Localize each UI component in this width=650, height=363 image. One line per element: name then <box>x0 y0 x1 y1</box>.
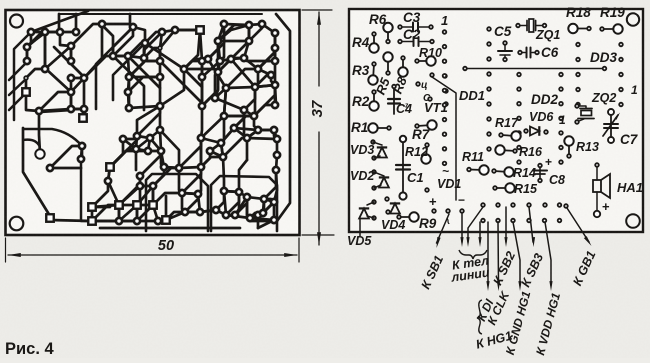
pad <box>273 167 279 173</box>
wire <box>128 56 160 88</box>
wire <box>96 27 133 109</box>
pad <box>147 135 153 141</box>
wire <box>129 106 160 108</box>
wire <box>218 25 249 41</box>
wire <box>218 24 224 72</box>
wire <box>184 61 202 69</box>
wire <box>81 146 84 159</box>
wire <box>92 220 119 223</box>
wire <box>128 56 144 58</box>
wire <box>200 138 203 167</box>
pad <box>22 88 30 96</box>
wire <box>208 24 224 59</box>
pad <box>212 95 218 101</box>
DD1 pin pad <box>443 30 447 34</box>
pad <box>125 89 131 95</box>
wire <box>258 33 275 69</box>
wire <box>26 47 29 61</box>
wire <box>129 58 144 77</box>
wire <box>137 205 153 221</box>
wire <box>136 205 139 221</box>
wire <box>244 110 247 138</box>
wire <box>70 92 73 109</box>
wire <box>218 40 249 43</box>
wire <box>224 115 254 118</box>
wire <box>160 130 161 151</box>
long signal wire <box>466 68 603 70</box>
wire <box>184 30 200 69</box>
wire <box>139 176 142 205</box>
wire <box>220 59 231 61</box>
pad <box>252 84 258 90</box>
pad <box>176 165 182 171</box>
wire <box>145 43 184 69</box>
pad <box>142 40 148 46</box>
resistor R13 <box>568 141 570 156</box>
wire <box>31 31 45 34</box>
wire <box>113 43 145 100</box>
wire <box>108 167 110 181</box>
wire <box>248 25 251 41</box>
wire <box>164 167 179 168</box>
wire <box>44 32 47 69</box>
wire <box>137 220 158 223</box>
pad <box>78 156 84 162</box>
wire <box>221 128 234 143</box>
wire K VDD HG1 <box>545 222 551 285</box>
pad <box>149 201 157 209</box>
wire K CLK <box>497 222 500 285</box>
pad <box>68 75 74 81</box>
wire <box>50 220 92 221</box>
wire <box>9 93 26 110</box>
wire K DI <box>487 222 489 285</box>
wire <box>201 77 204 106</box>
pad <box>244 135 250 141</box>
wire <box>119 220 137 223</box>
wire <box>254 116 258 130</box>
wire <box>185 211 200 214</box>
wire K SB3 <box>529 207 533 242</box>
wire <box>100 227 240 230</box>
wire <box>198 194 200 212</box>
wire <box>276 139 279 155</box>
wire <box>9 62 27 80</box>
wire <box>153 193 182 205</box>
wire <box>70 46 73 61</box>
DD2 pin pad <box>517 87 521 91</box>
wire <box>218 59 231 72</box>
wire <box>123 136 137 139</box>
pad <box>110 53 116 59</box>
wire <box>200 210 216 212</box>
wire from VT1 to bottom connector <box>432 77 456 200</box>
IC DD1 pin row <box>443 30 447 165</box>
pad <box>228 56 234 62</box>
wire <box>234 128 247 160</box>
wire <box>201 157 223 167</box>
resistor R15 <box>495 187 510 189</box>
wire <box>160 130 179 168</box>
DD3 pin pad <box>619 73 623 77</box>
wire <box>221 116 224 143</box>
pad <box>79 114 87 122</box>
resistor R6 <box>387 28 389 42</box>
pad <box>81 75 87 81</box>
wire <box>201 116 224 138</box>
wire <box>137 106 160 136</box>
wire <box>91 207 94 221</box>
wire <box>129 14 132 25</box>
wire <box>258 129 274 132</box>
wire <box>249 24 262 41</box>
wire <box>249 24 262 25</box>
wire <box>215 98 244 110</box>
wire <box>254 87 257 116</box>
wire <box>128 77 129 92</box>
horizontal dimension line 50 <box>8 254 297 256</box>
wire <box>224 191 247 197</box>
wire <box>45 31 60 34</box>
DD2 pin pad <box>517 160 521 164</box>
wire <box>202 59 208 61</box>
DD3 pin pad <box>576 103 580 107</box>
wire <box>160 69 184 106</box>
wire <box>224 88 226 116</box>
wire <box>128 92 129 108</box>
wire <box>231 41 249 59</box>
diode VD5 <box>372 200 376 204</box>
wire <box>136 149 148 151</box>
DD3 pin pad <box>619 88 623 92</box>
wire <box>148 150 161 153</box>
wire <box>175 29 200 32</box>
resistor R9 <box>399 216 414 218</box>
mounting hole top-left <box>10 15 23 28</box>
wire <box>234 110 244 128</box>
DD2 pin pad <box>559 87 563 91</box>
wire <box>258 220 274 228</box>
wire <box>137 136 150 138</box>
wire <box>119 176 140 205</box>
wire <box>250 218 274 220</box>
brace HG1 <box>477 300 482 334</box>
wire <box>179 168 182 193</box>
wire <box>26 47 29 61</box>
wire <box>110 149 136 167</box>
wire <box>26 92 39 111</box>
resistor R18 <box>573 28 589 30</box>
pad <box>157 58 163 64</box>
wire <box>255 69 258 87</box>
wire <box>23 140 40 147</box>
wire <box>119 205 137 221</box>
wire <box>162 30 175 32</box>
mounting hole top-right <box>627 13 639 25</box>
pad <box>134 133 140 139</box>
wire <box>254 85 275 116</box>
wire <box>250 215 258 218</box>
connector pad <box>496 219 500 223</box>
vertical dimension line 37 <box>318 12 320 86</box>
pad <box>24 76 28 80</box>
pad <box>88 203 96 211</box>
wire <box>39 110 71 112</box>
wire <box>218 58 244 72</box>
wire <box>165 196 168 220</box>
wire <box>201 106 202 138</box>
wire <box>258 69 271 75</box>
connector pad <box>543 203 547 207</box>
wire <box>211 176 277 231</box>
wire <box>159 77 162 106</box>
connector pad <box>496 203 500 207</box>
wire <box>119 220 137 223</box>
wire <box>182 193 198 194</box>
pad <box>272 82 278 88</box>
DD2 pin pad <box>517 146 521 150</box>
wire <box>118 205 121 221</box>
pad <box>35 149 44 158</box>
wire <box>60 32 71 46</box>
diode VD3 <box>371 140 375 144</box>
pad <box>172 27 178 33</box>
wire <box>185 211 200 214</box>
pad <box>198 164 204 170</box>
pad <box>261 196 267 202</box>
wire <box>274 48 277 61</box>
wire <box>231 58 244 59</box>
wire <box>264 199 274 202</box>
wire <box>153 167 164 186</box>
wire <box>137 186 153 205</box>
wire <box>226 214 235 217</box>
wire <box>113 55 128 58</box>
wire <box>39 109 71 111</box>
wire <box>118 205 121 221</box>
DD3 pin pad <box>576 88 580 92</box>
wire <box>92 220 119 223</box>
net mark ots <box>416 82 420 86</box>
wire <box>113 56 144 110</box>
wire <box>144 43 145 58</box>
wire <box>153 168 179 186</box>
wire <box>160 32 162 48</box>
DD1 pin pad <box>487 102 491 106</box>
resistor R14 <box>494 171 509 172</box>
wire <box>234 128 258 130</box>
pad <box>161 164 167 170</box>
wire <box>201 61 204 77</box>
wire <box>273 202 276 220</box>
wire <box>201 138 223 157</box>
pad <box>47 165 53 171</box>
wire <box>26 69 45 78</box>
pad <box>57 29 63 35</box>
wire <box>226 69 258 88</box>
pad <box>133 201 141 209</box>
wire <box>250 213 263 218</box>
connector pad <box>558 203 562 207</box>
pad <box>259 21 265 27</box>
wire <box>50 167 81 170</box>
pad <box>272 58 278 64</box>
wire <box>184 59 208 69</box>
DD1 pin pad <box>487 147 491 151</box>
DD1 right pin row <box>487 72 491 151</box>
wire <box>224 88 226 116</box>
pad <box>158 46 162 50</box>
pad <box>68 58 74 64</box>
wire <box>158 220 166 221</box>
wire <box>244 58 258 69</box>
wire <box>234 116 254 128</box>
resistor R1 <box>373 127 389 129</box>
pad <box>99 21 105 27</box>
wire <box>257 215 260 228</box>
wire <box>102 25 113 56</box>
connector pads row upper <box>481 203 561 207</box>
wire <box>182 193 185 212</box>
wire <box>185 194 198 212</box>
DD1 pin pad <box>443 74 447 78</box>
pad <box>246 38 252 44</box>
wire K SB2 <box>505 207 507 242</box>
resistor R2 <box>373 92 375 106</box>
wire <box>218 61 220 72</box>
wire <box>210 143 221 151</box>
pad <box>155 218 161 224</box>
wire <box>83 78 86 109</box>
wire <box>258 48 275 69</box>
pad <box>125 53 131 59</box>
connector pad <box>543 219 547 223</box>
wire <box>119 186 140 205</box>
pad <box>24 58 30 64</box>
pad <box>207 148 213 154</box>
pad <box>106 163 114 171</box>
wire <box>123 139 136 170</box>
DD1 pin pad <box>487 117 491 121</box>
capacitor C3 <box>400 26 413 28</box>
wire <box>136 138 150 149</box>
wire <box>271 75 275 85</box>
wire <box>92 205 119 207</box>
pad <box>196 26 204 34</box>
mounting hole bottom-left <box>10 217 24 231</box>
wire <box>110 136 137 167</box>
wire <box>224 191 239 192</box>
wire <box>164 167 179 168</box>
wire <box>92 205 119 221</box>
pad <box>157 103 163 109</box>
wire <box>274 48 277 61</box>
wire <box>81 159 92 221</box>
wire <box>258 213 263 215</box>
pad <box>198 135 204 141</box>
wire <box>60 13 262 15</box>
wire <box>39 92 71 111</box>
wire <box>200 210 216 212</box>
pad <box>137 183 143 189</box>
wire <box>14 32 31 120</box>
wire <box>145 32 162 43</box>
wire <box>247 197 250 218</box>
DD3 pin pad <box>576 43 580 47</box>
mounting hole bottom-right <box>626 214 640 228</box>
wire <box>218 25 249 41</box>
pad <box>232 212 238 218</box>
pad <box>271 199 277 205</box>
wire <box>263 199 264 213</box>
wire <box>31 11 88 32</box>
wire <box>274 85 277 105</box>
wire <box>133 27 145 43</box>
wire <box>128 92 129 108</box>
resistor R7 <box>417 125 432 126</box>
connector pad <box>481 219 485 223</box>
pad <box>244 194 250 200</box>
wire <box>248 25 251 41</box>
pad <box>68 43 74 49</box>
wire <box>128 77 131 108</box>
pad <box>73 29 79 35</box>
DD2 pin pad <box>559 117 563 121</box>
pad <box>231 125 237 131</box>
capacitor C4 <box>393 86 395 114</box>
wire <box>276 155 277 170</box>
wire <box>58 14 61 32</box>
DD2 pin pad <box>517 131 521 135</box>
wire K GB1 <box>567 208 589 242</box>
pad <box>179 190 185 196</box>
wire <box>84 56 113 78</box>
DD3 pin pad <box>619 103 623 107</box>
wire <box>92 181 108 207</box>
diode VD2 <box>372 170 376 174</box>
DD2 pin pad <box>517 102 521 106</box>
wire <box>179 138 201 168</box>
pad <box>195 191 201 197</box>
pad <box>271 127 277 133</box>
wire <box>83 109 86 118</box>
wire <box>263 202 274 213</box>
wire <box>221 143 223 157</box>
wire <box>45 46 71 69</box>
resistor R16 <box>500 150 515 151</box>
wire <box>235 192 239 215</box>
wire <box>152 186 155 205</box>
extra pad GB1 <box>564 204 568 208</box>
wire <box>226 192 239 215</box>
wire <box>255 85 275 87</box>
wire <box>258 199 264 215</box>
wire <box>23 129 82 146</box>
wire <box>128 56 129 77</box>
wire <box>244 41 249 58</box>
wire <box>140 185 153 188</box>
connector pad <box>558 219 562 223</box>
pad <box>197 209 203 215</box>
wire <box>250 202 274 218</box>
wire <box>210 151 223 157</box>
pad <box>126 105 132 111</box>
pad <box>218 140 224 146</box>
pad <box>215 38 221 44</box>
wire <box>244 87 255 110</box>
pad <box>255 127 261 133</box>
wire <box>128 77 160 92</box>
